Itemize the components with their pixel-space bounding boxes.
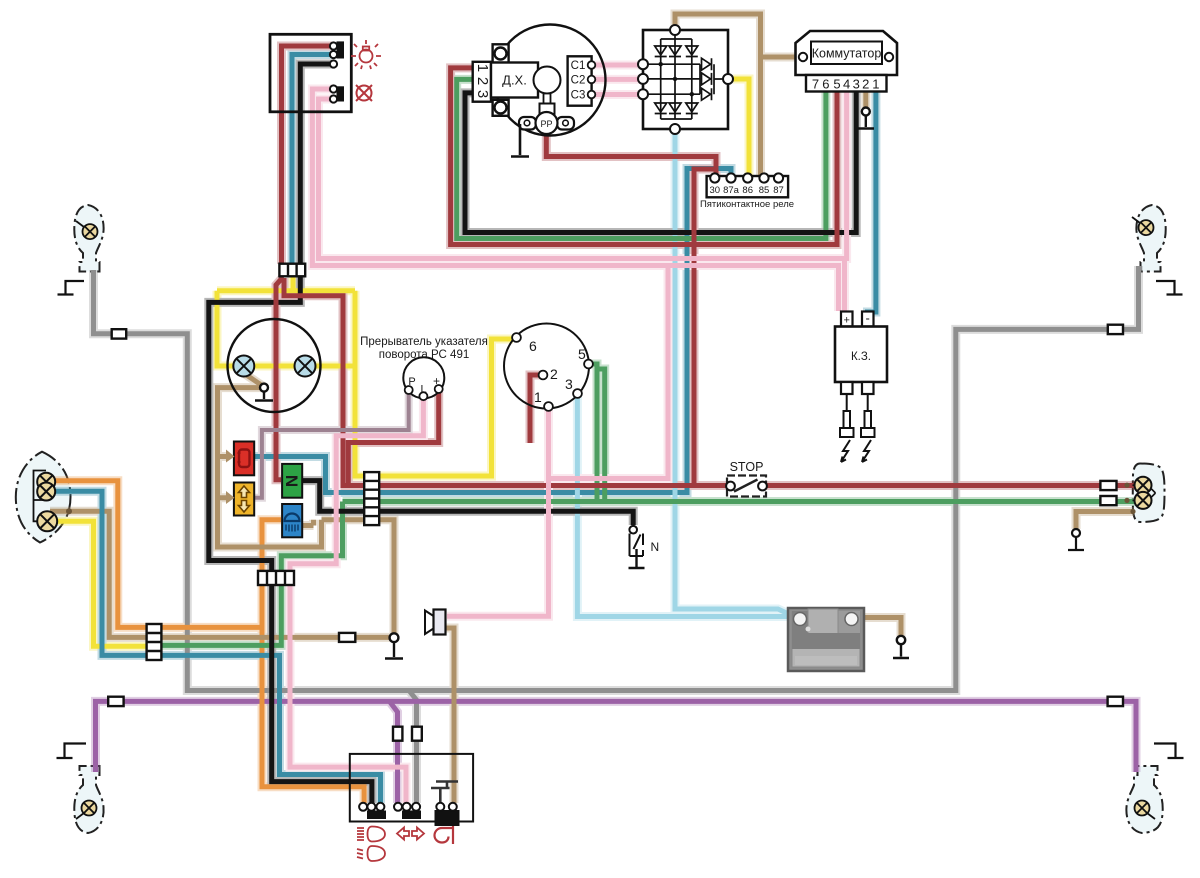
- right diode column: [702, 58, 712, 100]
- connector 6-cell middle bundle: [364, 472, 379, 525]
- tail light bulbs: [34, 471, 58, 532]
- tail light housing: [16, 452, 71, 543]
- PP regulator with ears: [519, 117, 536, 130]
- svg-text:86: 86: [742, 185, 753, 196]
- svg-text:6: 6: [529, 338, 537, 354]
- svg-text:1: 1: [474, 64, 491, 72]
- svg-text:1: 1: [872, 77, 879, 92]
- wire pink: generator C1 C2 C3 to rectifier: [593, 65, 641, 95]
- icon headlight bulb with rays: [351, 40, 381, 69]
- wire green: generator 2 to kommutator 6: [457, 79, 826, 238]
- wire tan: rectifier top to kommutator hole and relay 85: [675, 14, 797, 178]
- wire tan: gray box to ground: [857, 618, 901, 637]
- connector 4-cell horizontal harness: [258, 571, 294, 585]
- wire yellow: tail light to left connector: [48, 521, 153, 646]
- wire pink: headlight low beam A to ignition 1 vertical: [312, 89, 838, 479]
- tan row ground junction J2: [385, 633, 403, 658]
- front-left turn signal housing: [74, 205, 103, 272]
- wire gray: drop to handlebar switch: [409, 691, 417, 804]
- horn: [425, 610, 446, 635]
- indicator lamp blue (high beam): [282, 504, 302, 537]
- wire mauve: flasher P to amber indicator: [254, 393, 409, 498]
- rear-left turn signal housing: [74, 766, 103, 833]
- svg-text:85: 85: [759, 185, 770, 196]
- generator terminal strip 1 2 3: [473, 62, 491, 102]
- right rear lamp bulbs: [1133, 477, 1156, 509]
- wire green: main row to right rear lamp, ignition 5 feed, drop to left connector: [153, 364, 1135, 645]
- rotor: [534, 67, 561, 94]
- ignition coil K.Z.: [835, 311, 887, 463]
- svg-text:N: N: [651, 540, 660, 554]
- rectifier bridge: [638, 25, 733, 134]
- svg-text:N: N: [282, 475, 301, 487]
- C1 C2 C3 box: [568, 56, 592, 105]
- wire darkred: flasher plus to main row: [348, 392, 438, 486]
- svg-text:87: 87: [773, 185, 784, 196]
- wire tan: kommutator terminal 2 ground stub: [863, 91, 868, 108]
- wire pink: headlight low beam B to kommutator 4 and coil plus: [319, 92, 847, 311]
- wire darkred: main row through STOP to right rear lamp: [345, 483, 1135, 488]
- indicator lamp red (charge): [234, 442, 254, 476]
- LAYER: inline connectors (over wires): [108, 264, 1123, 741]
- indicator lamp green (neutral): [282, 464, 302, 498]
- wire teal: charge indicator row to relay 87a: [255, 169, 731, 493]
- wire darkred: connector right branch down to main row: [284, 278, 349, 486]
- svg-text:C3: C3: [571, 90, 586, 102]
- wire pink: ignition 1 to horn: [447, 409, 549, 616]
- wire teal: tail light row to handlebar switch: [48, 491, 381, 803]
- spark plug right: [861, 394, 875, 462]
- headlamp circle: [228, 319, 321, 412]
- gray box ground: [893, 636, 909, 658]
- five pin relay: [700, 173, 794, 210]
- wire darkred: generator 1 to kommutator 5: [451, 68, 837, 245]
- right rear lamp ground: [1068, 529, 1084, 550]
- generator assembly: [473, 25, 606, 157]
- svg-text:3: 3: [474, 90, 491, 98]
- connector gray mid vertical: [412, 727, 422, 741]
- svg-text:РР: РР: [540, 119, 552, 129]
- wire orange: tail light row, riser to blue lamp box, drop to switch: [52, 481, 364, 803]
- bottom diode row: [655, 103, 698, 112]
- wire darkred: ignition 2 feed: [530, 375, 543, 443]
- connector purple mid vertical: [393, 727, 402, 741]
- wire pink: flasher L to turn signal switch: [290, 399, 423, 803]
- wire gray: front-left signal to rear loop to front-right signal: [94, 266, 1139, 691]
- wire cyan: ignition terminal 3 to gray box: [577, 396, 797, 618]
- svg-text:STOP: STOP: [730, 460, 764, 474]
- rear-right turn signal housing: [1126, 766, 1162, 833]
- wire darkred: connector to neutral box via headlamp: [276, 277, 283, 480]
- connector darkred right: [1100, 481, 1116, 490]
- svg-text:2: 2: [550, 366, 558, 382]
- svg-text:Д.Х.: Д.Х.: [502, 73, 527, 88]
- connector 3-cell headlamp top: [279, 264, 305, 277]
- headlight connector block top-left: [270, 34, 351, 112]
- tan fork connectors into indicator boxes: [226, 450, 235, 505]
- wire purple: drop to handlebar switch: [390, 701, 398, 803]
- wire teal: headlight block through connector (upper run): [292, 55, 334, 265]
- N neutral switch: [629, 526, 660, 568]
- icon crossed lamp: [356, 85, 372, 101]
- wire tan: right rear lamp to ground: [1076, 512, 1134, 530]
- connector gray right: [1108, 325, 1123, 334]
- wire cyan: rectifier bottom to gray box: [675, 133, 800, 618]
- wire tan: headlamp bulb to J1 then indicator feed loop to tan row: [218, 369, 395, 635]
- spark plug left: [840, 394, 854, 462]
- svg-text:5: 5: [833, 77, 840, 92]
- svg-text:Прерыватель указателя: Прерыватель указателя: [360, 336, 488, 348]
- flasher relay RS491: [360, 336, 488, 400]
- hall sensor box: [491, 63, 538, 98]
- svg-text:7: 7: [812, 77, 819, 92]
- wire darkred: headlight block upper to connector: [282, 46, 335, 264]
- wire teal: kommutator 1 to ignition coil minus: [868, 91, 876, 325]
- svg-text:C2: C2: [571, 75, 586, 87]
- svg-text:87а: 87а: [723, 185, 740, 196]
- svg-text:3: 3: [565, 376, 573, 392]
- signal lamp bulbs: [76, 217, 1155, 819]
- right rear stop/tail lamp housing: [1133, 464, 1165, 523]
- STOP switch: [726, 460, 767, 497]
- wire black: generator 3 to kommutator 3: [465, 92, 856, 233]
- wire purple: rear-left signal to rear-right signal: [96, 701, 1137, 772]
- wire yellow: headlamp parking loop: [217, 277, 513, 477]
- svg-text:5: 5: [578, 346, 586, 362]
- connector purple right: [1108, 697, 1123, 706]
- connector 4-cell left vertical: [147, 624, 162, 660]
- wire black: neutral lamp box to N switch row: [303, 481, 633, 525]
- wire black: headlight block long harness to handlebar switch: [209, 64, 372, 803]
- indicator lamp amber (turn): [234, 483, 254, 516]
- connector tan row: [339, 633, 355, 642]
- svg-text:К.З.: К.З.: [851, 351, 871, 363]
- signal lamp grounds: [57, 281, 1184, 758]
- generator mounting tab lower: [493, 100, 509, 116]
- headlamp bulbs: [233, 356, 315, 377]
- svg-text:Пятиконтактное реле: Пятиконтактное реле: [700, 199, 794, 210]
- svg-text:30: 30: [710, 185, 721, 196]
- switch icon turn arrows: [397, 828, 424, 840]
- wire darkred: branch down to stop row: [694, 169, 716, 486]
- switch icon horn: [435, 826, 454, 844]
- wire tan: stubs into red and amber indicator boxes: [218, 457, 228, 498]
- connector green right: [1100, 496, 1116, 505]
- svg-text:6: 6: [822, 77, 829, 92]
- headlamp ground junction J1: [255, 384, 273, 401]
- front-right turn signal housing: [1136, 205, 1165, 272]
- wire yellow: rectifier right terminal to relay 86: [733, 79, 749, 178]
- svg-text:C1: C1: [571, 60, 586, 72]
- top diode row: [655, 46, 698, 55]
- svg-text:2: 2: [862, 77, 869, 92]
- svg-text:4: 4: [843, 77, 850, 92]
- generator ground: [511, 124, 529, 157]
- connector purple left: [108, 697, 123, 706]
- generator mounting tab upper: [493, 44, 509, 62]
- wire tan: tail light row to ground junction J2: [50, 511, 392, 637]
- kommutator 2 ground: [858, 108, 874, 129]
- gray electronic box: [788, 608, 864, 671]
- svg-text:2: 2: [474, 77, 491, 85]
- svg-text:+: +: [843, 315, 849, 327]
- svg-text:1: 1: [534, 389, 542, 405]
- connector gray left: [112, 329, 127, 338]
- svg-text:3: 3: [853, 77, 860, 92]
- switch icons high/low beam: [357, 827, 385, 862]
- handlebar switch block: [350, 754, 473, 826]
- kommutator box: [796, 31, 898, 92]
- wire tan: horn to handlebar switch: [446, 628, 454, 803]
- wire darkred: generator PP to relay 30: [546, 132, 716, 177]
- svg-text:-: -: [866, 311, 870, 326]
- svg-text:Коммутатор: Коммутатор: [812, 47, 882, 61]
- ignition switch: [504, 324, 593, 411]
